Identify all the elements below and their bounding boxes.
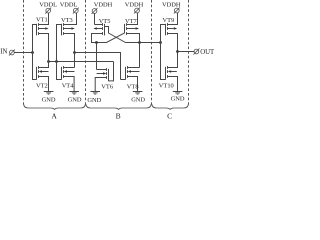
VT6 source lead to ground	[95, 78, 106, 92]
VT8 substrate lead	[131, 71, 140, 73]
terminal VDDL1	[46, 8, 51, 13]
transistor VT3 gate bar and channel	[61, 24, 63, 36]
transistor VT10 gate bar and channel	[165, 67, 167, 80]
VT7 substrate arrowhead	[136, 27, 139, 30]
svg-text:VT8: VT8	[127, 83, 139, 90]
svg-text:VT1: VT1	[36, 17, 48, 24]
VT10 substrate lead	[171, 71, 177, 73]
VT1 drain lead to VDDL1	[39, 13, 49, 25]
terminal VDDH3	[174, 8, 179, 13]
terminal VDDH1	[92, 9, 97, 14]
svg-text:OUT: OUT	[200, 49, 215, 56]
VT1 source lead down	[39, 34, 49, 62]
svg-text:GND: GND	[131, 97, 145, 104]
VT10 gate lead riser	[161, 43, 166, 80]
VT10 substrate arrowhead	[168, 70, 171, 73]
wire inverter2 output to VT8 gate	[75, 53, 121, 80]
ground symbol B2	[133, 91, 143, 93]
VT6 substrate arrowhead	[103, 72, 106, 75]
wire inverter1 output bus	[49, 61, 114, 63]
VT9 substrate lead	[168, 28, 174, 30]
svg-text:VT4: VT4	[62, 83, 75, 90]
svg-text:GND: GND	[171, 96, 185, 103]
svg-text:VT10: VT10	[159, 82, 174, 89]
terminal OUT	[194, 49, 199, 54]
node X junction	[95, 41, 98, 44]
VT8 source lead to ground	[128, 77, 138, 92]
svg-text:VDDL: VDDL	[60, 2, 78, 9]
VT9 substrate arrowhead	[174, 27, 177, 30]
dashed frame line B|C	[151, 0, 153, 105]
VT6 gate lead riser	[109, 62, 114, 81]
ground symbol A1	[44, 91, 54, 93]
brace under stage C	[152, 104, 188, 109]
node Y junction	[138, 41, 141, 44]
VT7 drain lead to VDDH2	[127, 13, 138, 25]
terminal VDDH2	[135, 8, 140, 13]
wire IN to gate node	[14, 52, 32, 54]
VT3 gate lead riser	[57, 25, 62, 62]
VT8 drain lead to node Y	[128, 67, 140, 69]
transistor VT1 gate bar and channel	[36, 24, 38, 36]
VT6 substrate lead	[97, 73, 104, 75]
VT3 source lead down through node	[64, 34, 75, 68]
wire to OUT terminal	[178, 51, 195, 53]
VT7 gate lead cross-couple to node X	[97, 24, 125, 43]
dashed frame line right	[188, 0, 190, 105]
VT4 substrate arrowhead	[64, 70, 67, 73]
node IN junction	[31, 51, 34, 54]
VT8 substrate arrowhead	[128, 70, 131, 73]
ground symbol A2	[69, 91, 79, 93]
VT1 gate lead	[33, 25, 37, 53]
svg-text:VT9: VT9	[163, 17, 175, 24]
node Y column to VT8 drain	[139, 43, 141, 68]
VT1 substrate lead	[39, 28, 46, 30]
wire node Y to stage C	[140, 42, 161, 44]
svg-text:VT5: VT5	[99, 18, 111, 25]
svg-text:GND: GND	[42, 97, 56, 104]
transistor VT7 channel (bar drawn with cross-couple lead)	[126, 23, 128, 26]
svg-text:A: A	[51, 111, 57, 120]
VT4 substrate lead	[67, 71, 75, 73]
transistor VT5 gate bar and channel	[104, 24, 106, 36]
ground symbol B1	[90, 91, 100, 93]
node OUT junction	[176, 50, 179, 53]
node stage C gate junction	[159, 41, 162, 44]
terminal VDDL2	[73, 8, 78, 13]
VT5 drain stub	[95, 24, 103, 26]
VT4 gate lead riser	[57, 62, 62, 80]
VT6 drain stub from node X	[97, 69, 107, 71]
svg-text:VDDH: VDDH	[162, 2, 181, 9]
VT3 drain lead to VDDL2	[64, 13, 77, 25]
VT2 substrate lead	[42, 71, 49, 73]
ground symbol C	[173, 91, 183, 93]
transistor VT4 gate bar and channel	[61, 67, 63, 80]
node X column to VT6 drain	[96, 43, 98, 70]
VT7 source lead to node Y	[127, 34, 140, 43]
svg-text:VT7: VT7	[125, 18, 138, 25]
transistor VT2 gate bar and channel	[36, 67, 38, 80]
VT9 drain lead to VDDH3	[168, 13, 178, 25]
VT3 substrate arrowhead	[71, 27, 74, 30]
svg-text:B: B	[116, 112, 121, 121]
svg-text:VT6: VT6	[101, 83, 113, 90]
brace under stage B	[86, 104, 151, 109]
transistor VT8 gate bar and channel	[125, 67, 127, 80]
brace under stage A	[24, 104, 86, 109]
svg-text:GND: GND	[87, 97, 101, 104]
VT9 gate lead riser	[161, 25, 166, 43]
svg-text:VDDH: VDDH	[125, 2, 144, 9]
svg-text:IN: IN	[0, 49, 7, 56]
VT4 source lead to ground	[64, 77, 75, 92]
dashed frame line left	[23, 0, 25, 105]
VT1 substrate arrowhead	[45, 27, 48, 30]
VT5 substrate lead	[97, 28, 103, 30]
node inverter2 output	[73, 51, 76, 54]
svg-text:VT3: VT3	[61, 17, 73, 24]
VT4 drain lead	[64, 67, 75, 69]
svg-text:VDDL: VDDL	[39, 2, 57, 9]
VT3 substrate lead	[64, 28, 72, 30]
dashed frame line A|B	[85, 0, 87, 105]
terminal IN	[10, 50, 15, 55]
VT2 source lead to ground	[39, 77, 49, 92]
VT10 source lead to ground	[168, 77, 178, 92]
VT8 gate lead	[121, 79, 126, 81]
VT7 substrate lead	[127, 28, 136, 30]
node VT3/VT4 gate	[55, 60, 58, 63]
VT9 source lead to OUT node	[168, 34, 178, 52]
svg-text:VT2: VT2	[36, 83, 48, 90]
VT5 substrate arrowhead	[93, 27, 96, 30]
svg-text:GND: GND	[68, 97, 82, 104]
node inverter1 output	[47, 60, 50, 63]
VT10 drain lead to OUT node	[168, 52, 178, 68]
svg-text:C: C	[167, 111, 172, 120]
VT2 drain lead up	[39, 62, 49, 68]
VT5 source lead to node X	[92, 34, 103, 43]
VT2 substrate arrowhead	[39, 70, 42, 73]
VT2 gate lead	[33, 53, 37, 80]
VT5 rail wire from VDDH1	[94, 13, 96, 24]
VT5 gate lead cross-couple to node Y	[105, 27, 140, 43]
transistor VT6 gate bar and channel	[108, 69, 110, 81]
svg-text:VDDH: VDDH	[94, 2, 113, 9]
transistor VT9 gate bar and channel	[165, 24, 167, 36]
